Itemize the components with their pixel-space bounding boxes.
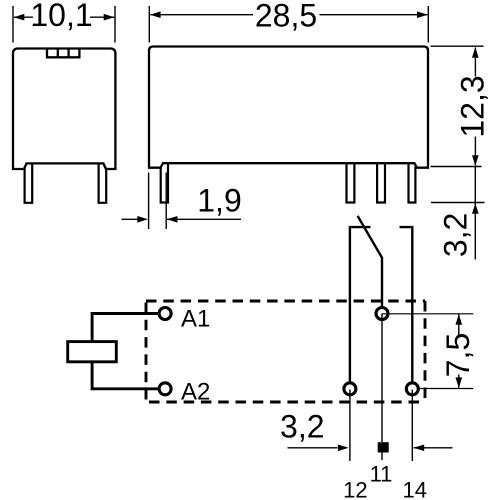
svg-text:3,2: 3,2 <box>280 408 324 444</box>
svg-text:12,3: 12,3 <box>455 75 491 137</box>
svg-text:A1: A1 <box>181 306 210 333</box>
svg-text:12: 12 <box>343 478 367 500</box>
svg-text:3,2: 3,2 <box>437 213 473 257</box>
svg-text:7,5: 7,5 <box>440 333 476 377</box>
svg-text:1,9: 1,9 <box>197 183 241 219</box>
svg-text:28,5: 28,5 <box>255 0 317 33</box>
svg-text:A2: A2 <box>181 378 210 405</box>
svg-text:10,1: 10,1 <box>30 0 92 33</box>
svg-text:14: 14 <box>402 478 426 500</box>
svg-text:11: 11 <box>370 461 393 486</box>
